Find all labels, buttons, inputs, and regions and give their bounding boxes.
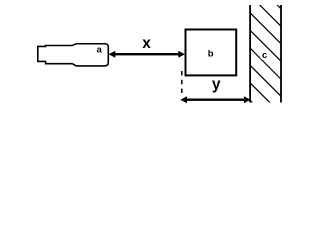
wall c: right edge — [280, 5, 282, 103]
svg-text:x: x — [142, 35, 151, 52]
svg-text:a: a — [97, 45, 103, 56]
svg-text:b: b — [208, 49, 214, 60]
wall c: left edge — [249, 5, 251, 103]
dimension arrow x (double-headed) — [109, 51, 185, 58]
extension line (dashed) below block — [181, 71, 183, 96]
bullet object a (stepped cartridge outline) — [38, 44, 109, 66]
svg-text:c: c — [262, 50, 267, 61]
label c background — [261, 50, 270, 59]
block b — [186, 30, 237, 76]
svg-text:y: y — [212, 76, 221, 93]
dimension arrow y (double-headed) — [180, 96, 250, 103]
